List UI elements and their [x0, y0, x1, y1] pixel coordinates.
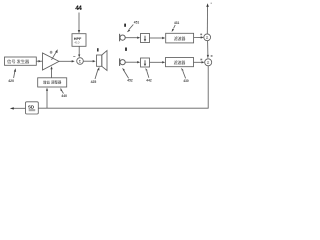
HPF box 410 [72, 34, 86, 47]
leader+label 420 [14, 71, 15, 78]
wire ds2 to filter2 [150, 61, 163, 63]
svg-text:44: 44 [75, 5, 82, 12]
downsampler box row1 [141, 34, 150, 43]
wire C1 down to C2 [207, 41, 209, 56]
svg-text:信号 发生器: 信号 发生器 [7, 58, 30, 65]
speaker 425 [97, 55, 102, 66]
plus mark left of C1 [200, 34, 202, 36]
mic1 451 [119, 34, 121, 42]
plus mark left of C2 [200, 59, 202, 61]
wire mic1 to ds1 [125, 37, 137, 39]
summer S1 [77, 58, 84, 65]
wire filter1 to summer C1 [194, 36, 201, 38]
wire HPF to summer S1 [78, 46, 80, 55]
leader+label 434 [183, 71, 186, 78]
wire S1 to speaker [83, 60, 93, 62]
svg-text:430: 430 [183, 79, 189, 83]
downsampler box row2 [141, 58, 150, 67]
wire mic2 to ds2 [125, 61, 137, 63]
wire gain control EQ to amp [51, 69, 53, 78]
leader+label 431 [174, 25, 176, 29]
svg-text:451: 451 [134, 21, 140, 25]
wire ds1 to filter1 [150, 37, 163, 39]
svg-text:442: 442 [146, 79, 152, 83]
plus tick left of S1 top [73, 55, 75, 58]
amplifier triangle (variable gain) [43, 53, 60, 70]
filter box row1 431 [166, 33, 194, 43]
svg-text:SD: SD [28, 104, 34, 109]
leader+label 452 [124, 71, 129, 79]
wire gen to amp [36, 60, 39, 62]
EQ/controller box 440 [38, 78, 67, 87]
leader+label 425 [95, 70, 98, 79]
small dark tick above speaker [97, 48, 99, 51]
box 420 signal generator [5, 57, 37, 65]
svg-text:440: 440 [61, 94, 67, 98]
plus mark beside [211, 55, 213, 57]
wire 44 down to HPF [78, 13, 80, 31]
wire SD out to left arrow [14, 107, 26, 109]
gain arrow [52, 52, 57, 60]
wire amp to S1 [59, 60, 72, 62]
wire feedback up into EQ box [46, 90, 48, 108]
small dark glyph above mic2 [125, 48, 127, 51]
output wire up from C1 [206, 7, 208, 34]
SD box [26, 102, 39, 114]
svg-text:452: 452 [127, 79, 133, 83]
mic2 452 [119, 58, 121, 66]
bottom feedback wire [38, 66, 208, 108]
svg-text:滤波器: 滤波器 [174, 60, 186, 65]
wire filter2 to summer C2 [194, 61, 202, 63]
svg-text:增益 调整器: 增益 调整器 [43, 80, 62, 85]
summer C2 [205, 59, 212, 66]
svg-text:420: 420 [8, 79, 14, 83]
small gray glyph near gain arrow [50, 51, 53, 54]
svg-text:滤波器: 滤波器 [174, 36, 186, 41]
leader+label 440 [61, 90, 63, 94]
leader+label 451 [129, 25, 133, 30]
svg-text:410: 410 [74, 40, 79, 44]
leader+label 442 [147, 71, 149, 78]
summer C1 [204, 34, 211, 41]
filter box row2 434 [166, 58, 194, 67]
small dark glyph above mic1 [124, 24, 126, 27]
svg-text:425: 425 [91, 80, 97, 84]
svg-text:431: 431 [174, 21, 180, 25]
